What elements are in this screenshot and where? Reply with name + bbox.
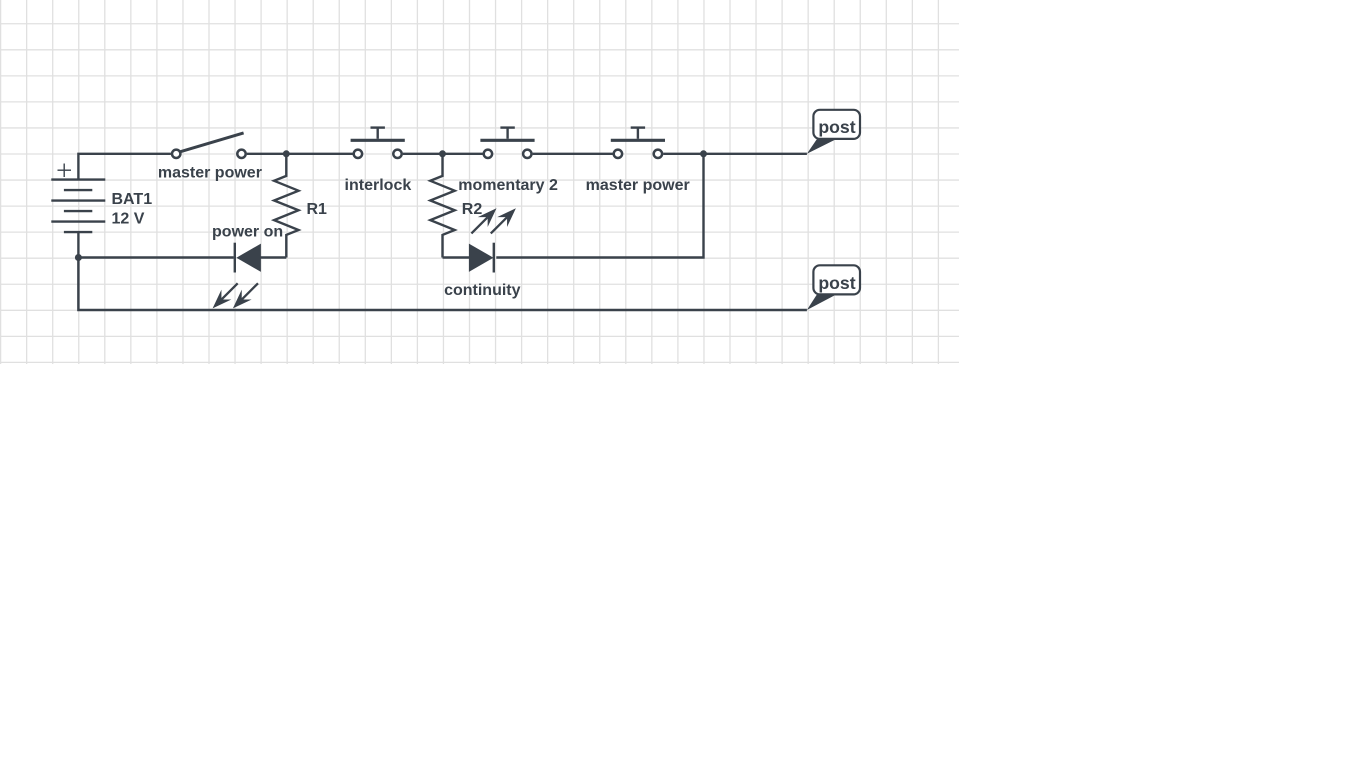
svg-text:12 V: 12 V xyxy=(112,211,145,228)
node junction R1 top xyxy=(283,150,290,157)
switch SW master power xyxy=(172,133,246,158)
interlock circle left xyxy=(354,150,362,158)
svg-text:post: post xyxy=(818,117,855,137)
resistor R1 xyxy=(274,154,298,258)
plate short 2 xyxy=(64,210,92,212)
node junction right branch xyxy=(700,150,707,157)
LED continuity arrow 2 xyxy=(486,203,521,238)
svg-text:R1: R1 xyxy=(307,201,328,218)
post connector bottom xyxy=(807,265,860,310)
wire LED power on to R1 bottom xyxy=(261,256,287,258)
plate long 1 xyxy=(51,178,105,180)
wire momentary 2 to master power button xyxy=(533,153,613,155)
momentary 2 circle left xyxy=(484,150,492,158)
battery BAT1 xyxy=(51,164,105,233)
momentary 2 circle right xyxy=(523,150,531,158)
svg-text:master power: master power xyxy=(158,165,262,182)
interlock cap xyxy=(371,126,385,128)
svg-text:master power: master power xyxy=(586,177,690,194)
node junction R2 top xyxy=(439,150,446,157)
plate short 3 xyxy=(64,231,92,233)
svg-text:power on: power on xyxy=(212,224,283,241)
battery plus sign xyxy=(58,164,72,178)
interlock stem xyxy=(377,128,379,139)
momentary 2 stem xyxy=(506,128,508,139)
svg-text:momentary 2: momentary 2 xyxy=(458,177,558,194)
pushbutton momentary 2 xyxy=(480,128,534,158)
svg-text:R2: R2 xyxy=(462,201,483,218)
wire interlock to node B xyxy=(403,153,483,155)
wire battery to LED power on xyxy=(78,256,233,258)
LED power on bar xyxy=(234,243,236,273)
interlock bar xyxy=(351,139,405,142)
pushbutton interlock xyxy=(351,128,405,158)
wire node C down right branch xyxy=(496,154,703,258)
wire bottom bus xyxy=(78,258,807,311)
LED power on arrow 2 xyxy=(228,278,263,313)
svg-text:BAT1: BAT1 xyxy=(112,191,153,208)
plate long 2 xyxy=(51,199,105,201)
post connector top xyxy=(807,110,860,154)
plate long 3 xyxy=(51,220,105,222)
plate short 1 xyxy=(64,189,92,191)
switch contact circle right xyxy=(237,150,245,158)
resistor R2 xyxy=(430,154,454,258)
wire switch to node A xyxy=(247,153,353,155)
wire battery top to switch xyxy=(78,154,170,180)
master power cap xyxy=(631,126,645,128)
wire R2 bottom to LED continuity xyxy=(443,256,470,258)
LED continuity arrow 1 xyxy=(466,203,501,238)
LED power on arrow 1 xyxy=(208,278,243,313)
node junction battery bottom xyxy=(75,254,82,261)
master power stem xyxy=(637,128,639,139)
LED continuity triangle xyxy=(469,244,494,272)
svg-text:post: post xyxy=(818,273,855,293)
interlock circle right xyxy=(393,150,401,158)
svg-text:interlock: interlock xyxy=(345,177,412,194)
switch contact circle left xyxy=(172,150,180,158)
wire battery bottom lead xyxy=(77,232,79,257)
momentary 2 cap xyxy=(500,126,514,128)
svg-text:continuity: continuity xyxy=(444,282,521,299)
LED continuity bar xyxy=(493,243,495,273)
momentary 2 bar xyxy=(480,139,534,142)
LED power on triangle xyxy=(236,244,261,272)
pushbutton master power xyxy=(611,128,665,158)
master power circle left xyxy=(614,150,622,158)
master power circle right xyxy=(654,150,662,158)
switch lever xyxy=(180,133,244,152)
master power bar xyxy=(611,139,665,142)
wire master power button to node C and top post xyxy=(663,153,807,155)
